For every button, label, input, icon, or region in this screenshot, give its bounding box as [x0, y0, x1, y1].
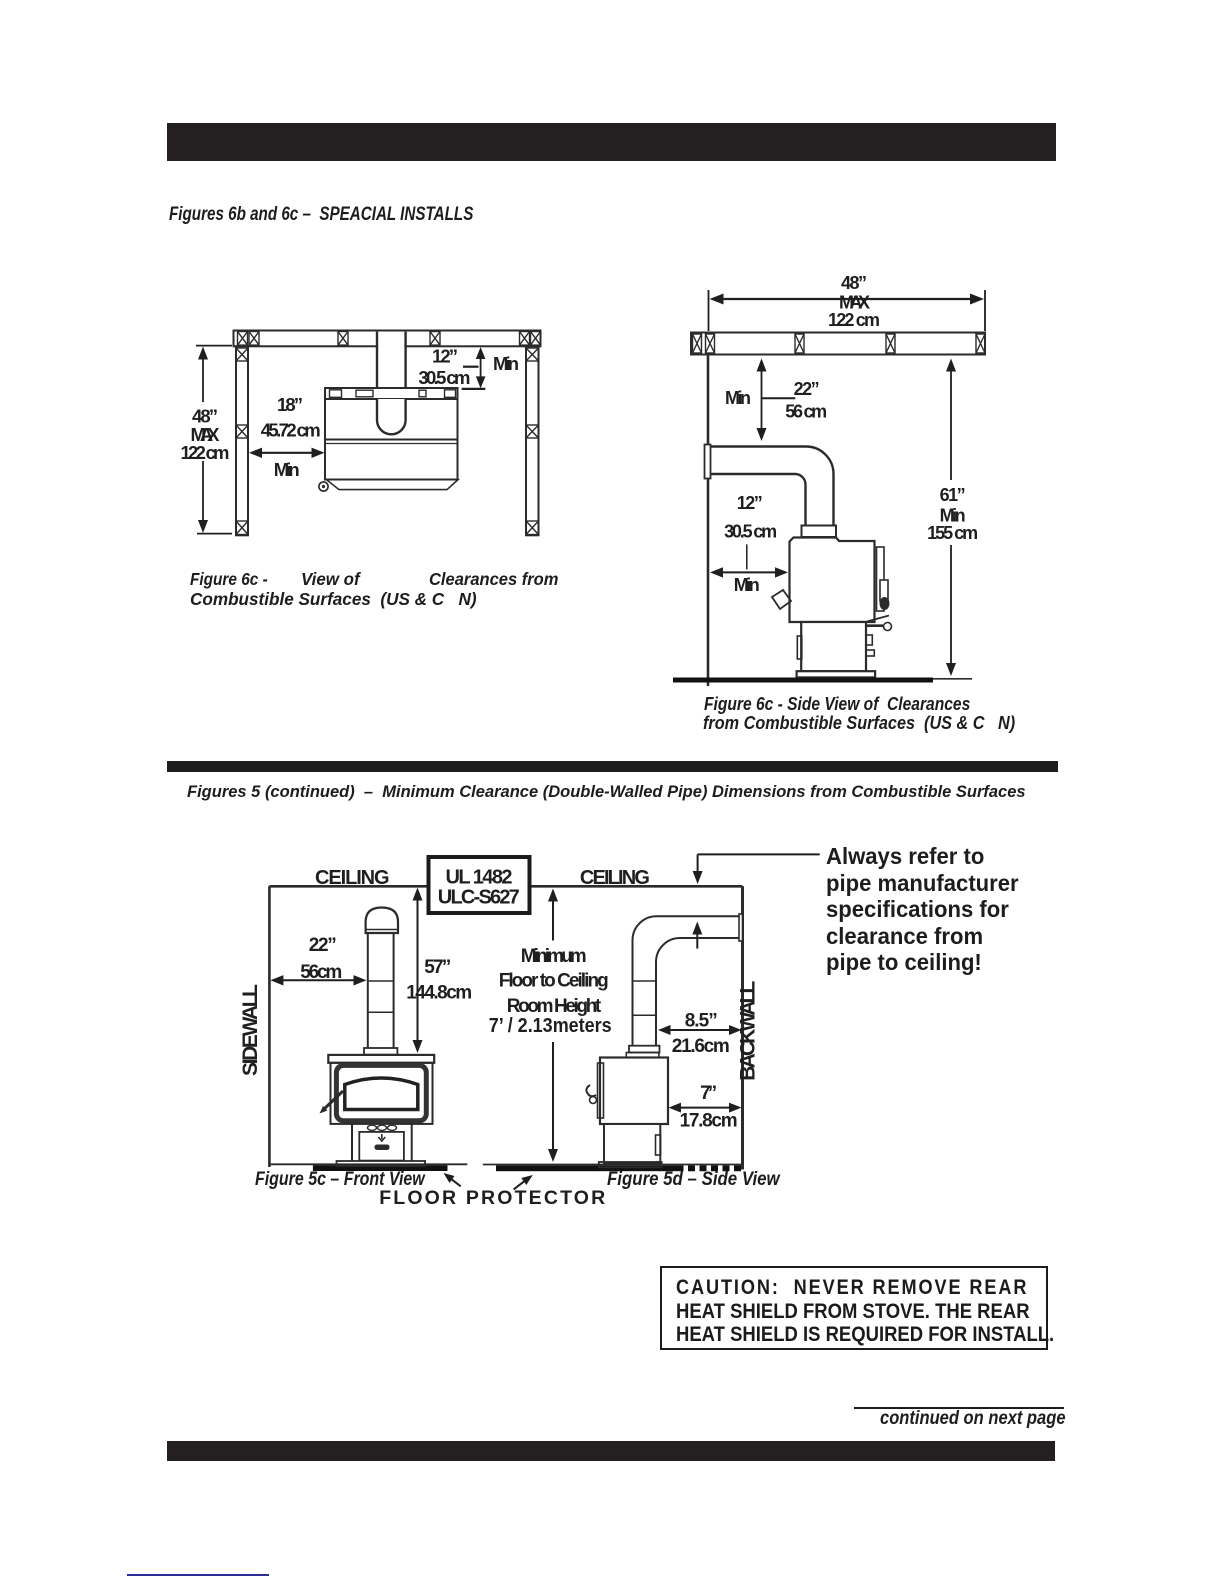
svg-text:BACKWALL: BACKWALL [737, 981, 760, 1081]
svg-text:Min: Min [274, 459, 300, 480]
svg-text:30.5 cm: 30.5 cm [418, 367, 470, 388]
svg-text:56 cm: 56 cm [785, 402, 827, 422]
svg-text:45.72 cm: 45.72 cm [261, 420, 321, 441]
svg-text:17.8cm: 17.8cm [680, 1111, 738, 1132]
svg-text:61”: 61” [940, 485, 966, 505]
svg-text:Min: Min [734, 575, 760, 595]
svg-text:SIDEWALL: SIDEWALL [239, 984, 262, 1076]
svg-text:22”: 22” [794, 379, 820, 399]
svg-text:18”: 18” [277, 394, 303, 415]
svg-text:CEILING: CEILING [580, 867, 650, 889]
svg-text:122 cm: 122 cm [181, 442, 230, 463]
svg-text:Min: Min [493, 353, 519, 374]
svg-text:CEILING: CEILING [315, 867, 390, 889]
svg-text:57”: 57” [424, 957, 451, 978]
svg-text:56cm: 56cm [300, 962, 342, 983]
svg-text:Floor to Ceiling: Floor to Ceiling [499, 971, 609, 992]
svg-text:8.5”: 8.5” [685, 1011, 718, 1032]
svg-text:7’ / 2.13meters: 7’ / 2.13meters [489, 1015, 612, 1037]
svg-text:UL 1482: UL 1482 [446, 867, 513, 889]
svg-text:7”: 7” [700, 1083, 717, 1104]
svg-text:144.8cm: 144.8cm [406, 982, 472, 1003]
svg-text:12”: 12” [432, 346, 458, 367]
svg-text:Min: Min [725, 388, 751, 408]
svg-text:12”: 12” [737, 493, 763, 513]
svg-text:155 cm: 155 cm [927, 523, 978, 543]
svg-text:Room Height: Room Height [507, 996, 602, 1017]
svg-text:Minimum: Minimum [521, 946, 587, 967]
svg-text:21.6cm: 21.6cm [672, 1036, 730, 1057]
svg-text:22”: 22” [309, 935, 337, 956]
svg-text:ULC-S627: ULC-S627 [438, 887, 520, 909]
svg-text:30.5 cm: 30.5 cm [724, 522, 777, 542]
svg-text:122 cm: 122 cm [828, 310, 880, 330]
svg-text:48”: 48” [841, 273, 867, 293]
